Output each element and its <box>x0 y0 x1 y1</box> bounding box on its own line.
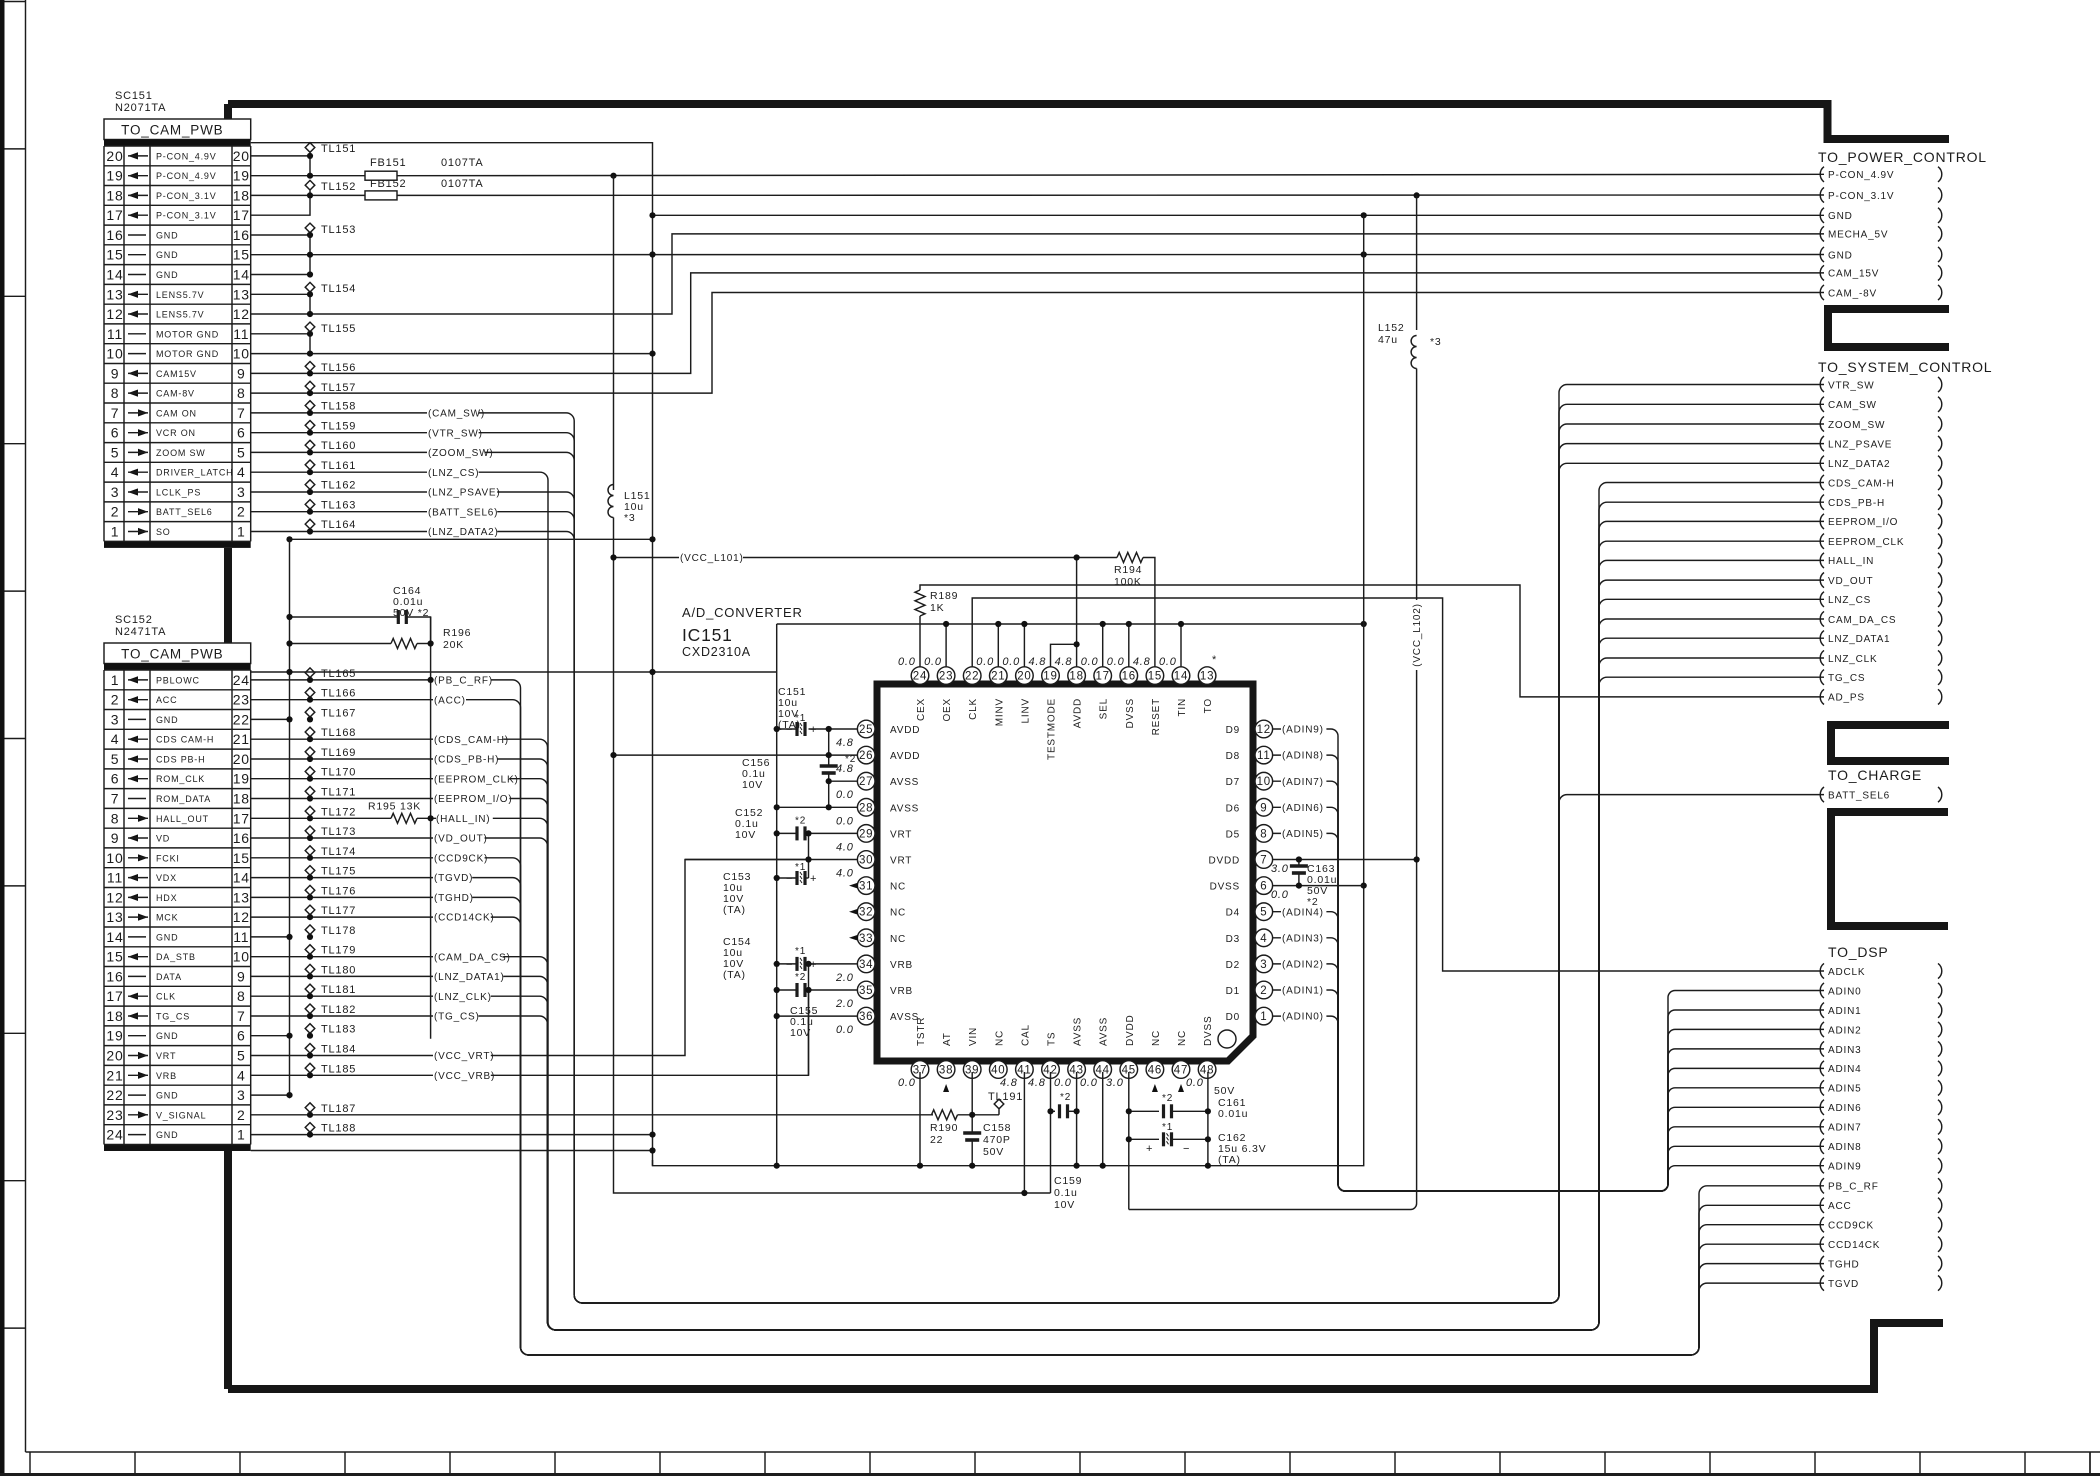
wire CLK line to ADCLK <box>972 598 1824 971</box>
svg-text:0.0: 0.0 <box>1081 656 1099 668</box>
svg-text:D2: D2 <box>1226 960 1240 971</box>
svg-text:(TA): (TA) <box>723 904 746 916</box>
svg-text:ADIN6: ADIN6 <box>1828 1103 1861 1114</box>
svg-text:5: 5 <box>237 444 246 460</box>
svg-text:TG_CS: TG_CS <box>1828 673 1865 684</box>
svg-text:9: 9 <box>111 830 120 846</box>
IC151 pin 25 AVDD (left) <box>857 720 875 738</box>
wire C163 bottom stem <box>1298 873 1300 886</box>
wire GND row3 <box>251 718 290 720</box>
svg-text:VRB: VRB <box>890 986 913 997</box>
IC151 pin 8 D5 (right) <box>1255 825 1273 843</box>
node TGHD (connector stub) <box>1820 1256 1824 1271</box>
node EEPROM_I/O (connector stub) <box>1820 514 1824 529</box>
svg-text:DA_STB: DA_STB <box>156 952 196 962</box>
inductor L151 coil <box>608 485 614 518</box>
IC151 pin 15 RESET (top) <box>1146 667 1164 685</box>
svg-text:VD: VD <box>156 834 170 844</box>
svg-text:17: 17 <box>233 810 250 826</box>
svg-text:*2: *2 <box>795 815 806 826</box>
svg-text:33: 33 <box>859 933 873 945</box>
wire VCC_L101 line <box>614 557 1077 559</box>
wire GND row22 <box>251 1094 290 1096</box>
svg-text:18: 18 <box>233 791 250 807</box>
svg-text:50V: 50V <box>983 1146 1004 1158</box>
node PB_C_RF (connector stub) <box>1820 1178 1824 1193</box>
svg-text:TGVD: TGVD <box>1828 1279 1859 1290</box>
capacitor C154 10u 10V (TA) <box>797 957 805 971</box>
svg-text:1K: 1K <box>930 602 944 614</box>
wire C153 left <box>777 877 797 879</box>
svg-text:+: + <box>810 873 817 885</box>
svg-text:(ADIN3): (ADIN3) <box>1282 933 1324 944</box>
svg-text:(LNZ_DATA1): (LNZ_DATA1) <box>434 972 505 983</box>
wire TL168 stem <box>309 737 311 739</box>
IC151 pin 7 DVDD (right) <box>1255 851 1273 869</box>
svg-text:+: + <box>1146 1143 1153 1155</box>
svg-text:R196: R196 <box>443 627 471 639</box>
svg-text:DATA: DATA <box>156 972 182 982</box>
svg-text:46: 46 <box>1148 1065 1162 1077</box>
svg-text:TL174: TL174 <box>321 846 356 858</box>
svg-text:38: 38 <box>939 1065 953 1077</box>
svg-text:23: 23 <box>106 1107 123 1123</box>
wire VTR_SW route <box>251 385 1824 1304</box>
node ADIN5 (connector stub) <box>1820 1080 1824 1095</box>
wire C164 right <box>407 617 431 644</box>
svg-text:15: 15 <box>233 247 250 263</box>
svg-text:10: 10 <box>106 346 123 362</box>
wire GND pin vertical 7 <box>1102 624 1104 667</box>
node GND (connector stub) <box>1820 247 1824 262</box>
svg-text:2: 2 <box>111 504 120 520</box>
wire LENS5.7V tie <box>309 294 311 314</box>
junction IC bottom junctions <box>917 1108 1211 1196</box>
wire TGVD route <box>251 878 1824 1355</box>
svg-text:0.0: 0.0 <box>1080 1077 1098 1089</box>
wire TL163 stem <box>309 510 311 512</box>
IC151 pin 45 DVDD (bottom) <box>1120 1061 1138 1079</box>
svg-text:6: 6 <box>1260 881 1267 893</box>
svg-text:14: 14 <box>106 929 123 945</box>
svg-text:4.0: 4.0 <box>836 868 854 880</box>
test point TL160 <box>305 440 315 450</box>
test point TL188 <box>305 1123 315 1133</box>
svg-text:TL152: TL152 <box>321 181 356 193</box>
IC151 pin 34 VRB (left) <box>857 955 875 973</box>
test point TL159 <box>305 421 315 431</box>
junction SC152 junctions <box>286 669 655 1154</box>
capacitor C153 10u 10V (TA) <box>797 871 805 885</box>
svg-text:LNZ_CS: LNZ_CS <box>1828 595 1871 606</box>
IC151 pin 46 NC (bottom) <box>1146 1061 1164 1079</box>
IC151 pin 6 DVSS (right) <box>1255 877 1273 895</box>
svg-text:C159: C159 <box>1054 1175 1082 1187</box>
svg-text:0107TA: 0107TA <box>441 178 484 190</box>
test point TL174 <box>305 846 315 856</box>
wire DVSS pin48 vertical <box>1207 1072 1209 1166</box>
svg-text:ROM_CLK: ROM_CLK <box>156 774 205 784</box>
IC151 pin 29 VRT (left) <box>857 825 875 843</box>
svg-text:11: 11 <box>233 929 249 945</box>
svg-text:13: 13 <box>106 909 123 925</box>
svg-text:TESTMODE: TESTMODE <box>1047 698 1058 760</box>
svg-text:−: − <box>786 873 793 885</box>
IC151 pin 36 AVSS (left) <box>857 1007 875 1025</box>
svg-text:*2: *2 <box>1162 1093 1173 1104</box>
node LNZ_DATA1 (connector stub) <box>1820 631 1824 646</box>
svg-text:N2471TA: N2471TA <box>115 626 166 638</box>
svg-text:12: 12 <box>106 306 123 322</box>
node CDS_CAM-H (connector stub) <box>1820 475 1824 490</box>
wire ADIN8 bus <box>1273 755 1824 1191</box>
svg-text:6: 6 <box>237 425 246 441</box>
test point TL163 <box>305 500 315 510</box>
IC151 pin 12 D9 (right) <box>1255 720 1273 738</box>
wire TL188 stem <box>309 1133 311 1135</box>
svg-text:9: 9 <box>111 365 120 381</box>
svg-text:(CCD9CK): (CCD9CK) <box>434 853 488 864</box>
wire C162 right <box>1172 1138 1208 1140</box>
svg-text:4: 4 <box>237 464 246 480</box>
test point TL177 <box>305 905 315 915</box>
svg-text:D3: D3 <box>1226 934 1240 945</box>
svg-text:D4: D4 <box>1226 908 1240 919</box>
IC151 pin 13 TO (top) <box>1198 667 1216 685</box>
wire TL185 stem <box>309 1073 311 1075</box>
wire GND pin vertical 10 <box>1180 624 1182 667</box>
svg-text:P-CON_4.9V: P-CON_4.9V <box>156 171 217 181</box>
wire TL182 stem <box>309 1014 311 1016</box>
svg-text:(VCC_L102): (VCC_L102) <box>1412 603 1423 667</box>
wire VRT pin30 line <box>685 859 857 861</box>
wire TL162 stem <box>309 490 311 492</box>
IC151 pin 48 DVSS (bottom) <box>1198 1061 1216 1079</box>
svg-text:EEPROM_I/O: EEPROM_I/O <box>1828 517 1898 528</box>
svg-text:HDX: HDX <box>156 893 177 903</box>
svg-text:RESET: RESET <box>1151 698 1162 735</box>
svg-text:FB152: FB152 <box>370 178 406 190</box>
svg-text:VRT: VRT <box>156 1051 176 1061</box>
svg-text:4: 4 <box>237 1067 246 1083</box>
IC151 pin 9 D6 (right) <box>1255 799 1273 817</box>
svg-text:18: 18 <box>1069 671 1083 683</box>
svg-text:CAM_-8V: CAM_-8V <box>1828 288 1877 299</box>
wire TESTMODE pin19 jog <box>1051 644 1077 667</box>
svg-text:2: 2 <box>1260 985 1267 997</box>
wire TL157 stem <box>309 391 311 393</box>
svg-text:4.8: 4.8 <box>1055 656 1073 668</box>
svg-text:0.1u: 0.1u <box>1054 1187 1078 1199</box>
wire GND pin15 to TO_POWER_CONTROL <box>251 254 1824 256</box>
svg-text:19: 19 <box>1043 671 1057 683</box>
junction IC left junctions <box>610 726 831 1019</box>
node CCD9CK (connector stub) <box>1820 1217 1824 1232</box>
IC151 pin 3 D2 (right) <box>1255 955 1273 973</box>
resistor R195 13K <box>391 813 417 823</box>
svg-text:CAM ON: CAM ON <box>156 408 197 418</box>
svg-text:ADIN4: ADIN4 <box>1828 1064 1861 1075</box>
node CDS_PB-H (connector stub) <box>1820 495 1824 510</box>
svg-text:9: 9 <box>237 365 246 381</box>
test point TL179 <box>305 945 315 955</box>
IC151 pin 4 D3 (right) <box>1255 929 1273 947</box>
svg-text:8: 8 <box>237 385 246 401</box>
svg-text:0.0: 0.0 <box>1054 1077 1072 1089</box>
wire TL154 stem <box>309 292 311 294</box>
svg-text:36: 36 <box>859 1011 873 1023</box>
node CCD14CK (connector stub) <box>1820 1237 1824 1252</box>
svg-text:0.0: 0.0 <box>924 656 942 668</box>
node ADIN0 (connector stub) <box>1820 983 1824 998</box>
svg-text:10: 10 <box>233 346 250 362</box>
wire DVDD pin45 vertical <box>1128 1072 1130 1210</box>
svg-text:DVSS: DVSS <box>1203 1016 1214 1046</box>
svg-text:SC151: SC151 <box>115 90 153 102</box>
wire VCC_VRT route <box>251 860 809 1056</box>
svg-text:(ADIN6): (ADIN6) <box>1282 803 1324 814</box>
IC151 pin 30 VRT (left) <box>857 851 875 869</box>
svg-text:LNZ_DATA2: LNZ_DATA2 <box>1828 459 1890 470</box>
svg-text:LNZ_PSAVE: LNZ_PSAVE <box>1828 439 1892 450</box>
svg-text:9: 9 <box>237 968 246 984</box>
junction C164/R196 junctions <box>286 614 433 647</box>
IC151 pin 17 SEL (top) <box>1094 667 1112 685</box>
wire TL160 stem <box>309 450 311 452</box>
svg-text:4.8: 4.8 <box>1133 656 1151 668</box>
svg-text:1: 1 <box>111 672 120 688</box>
svg-text:LINV: LINV <box>1020 698 1031 723</box>
svg-text:TO_CAM_PWB: TO_CAM_PWB <box>121 647 223 662</box>
wire TL173 stem <box>309 836 311 838</box>
op-amp/IC U IC151 CXD2310A A/D converter body <box>877 684 1253 1061</box>
IC151 pin 40 NC (bottom) <box>990 1061 1008 1079</box>
svg-text:D1: D1 <box>1226 986 1240 997</box>
wire CEX line to AD_PS <box>920 585 1824 697</box>
svg-text:TL171: TL171 <box>321 787 356 799</box>
IC151 pin 35 VRB (left) <box>857 981 875 999</box>
svg-text:18: 18 <box>106 1008 123 1024</box>
svg-text:VRB: VRB <box>156 1071 177 1081</box>
svg-text:50V *2: 50V *2 <box>393 607 429 619</box>
capacitor C151 10u 10V (TA) <box>797 722 805 736</box>
wire TL155 stem <box>309 332 311 334</box>
wire GND pins 16-14 tie <box>309 235 311 275</box>
IC151 pin 5 D4 (right) <box>1255 903 1273 921</box>
svg-text:22: 22 <box>233 711 250 727</box>
svg-text:TL166: TL166 <box>321 688 356 700</box>
svg-text:TL172: TL172 <box>321 806 356 818</box>
wire MOTOR GND pin11 <box>251 333 310 335</box>
svg-text:0.01u: 0.01u <box>1218 1108 1248 1120</box>
schematic frame border <box>228 104 1949 1389</box>
node MECHA_5V (connector stub) <box>1820 226 1824 241</box>
node LNZ_PSAVE (connector stub) <box>1820 436 1824 451</box>
svg-text:16: 16 <box>106 968 123 984</box>
svg-text:TL177: TL177 <box>321 905 356 917</box>
wire TL177 stem <box>309 915 311 917</box>
svg-text:14: 14 <box>1174 671 1188 683</box>
svg-text:(ADIN7): (ADIN7) <box>1282 777 1324 788</box>
wire TL161 stem <box>309 470 311 472</box>
svg-text:0.0: 0.0 <box>836 815 854 827</box>
svg-text:R189: R189 <box>930 590 958 602</box>
svg-text:AVDD: AVDD <box>890 751 920 762</box>
wire TL175 stem <box>309 876 311 878</box>
test point TL185 <box>305 1063 315 1073</box>
svg-text:TO_SYSTEM_CONTROL: TO_SYSTEM_CONTROL <box>1818 359 1992 375</box>
IC151 pin 16 DVSS (top) <box>1120 667 1138 685</box>
wire TL164 stem <box>309 529 311 531</box>
svg-text:18: 18 <box>106 187 123 203</box>
svg-text:21: 21 <box>991 671 1005 683</box>
wire L151 top <box>613 176 615 490</box>
IC151 pin 32 NC (left) <box>857 903 875 921</box>
wire CCD14CK route <box>251 917 1824 1355</box>
svg-text:PB_C_RF: PB_C_RF <box>1828 1182 1879 1193</box>
svg-text:(LNZ_DATA2): (LNZ_DATA2) <box>428 527 499 538</box>
svg-text:(TA): (TA) <box>723 969 746 981</box>
IC151 pin-1 indicator circle <box>1218 1030 1236 1048</box>
svg-text:TL180: TL180 <box>321 964 356 976</box>
node ADIN6 (connector stub) <box>1820 1100 1824 1115</box>
svg-text:16: 16 <box>1122 671 1136 683</box>
IC151 pin 11 D8 (right) <box>1255 746 1273 764</box>
test point TL175 <box>305 866 315 876</box>
svg-text:VRT: VRT <box>890 856 912 867</box>
svg-text:CEX: CEX <box>916 698 927 721</box>
svg-text:TL159: TL159 <box>321 420 356 432</box>
wire C153 right <box>805 877 808 879</box>
wire GND pin14 <box>251 274 310 276</box>
svg-text:2: 2 <box>237 1107 246 1123</box>
wire C159 right stem <box>1068 1110 1077 1112</box>
IC151 pin 22 CLK (top) <box>963 667 981 685</box>
wire TL167 stem <box>309 717 311 719</box>
node ADIN1 (connector stub) <box>1820 1003 1824 1018</box>
wire TL184 stem <box>309 1054 311 1056</box>
svg-text:LCLK_PS: LCLK_PS <box>156 488 201 498</box>
svg-text:MCK: MCK <box>156 913 178 923</box>
wire AVSS pin28 line <box>777 806 858 808</box>
svg-text:TGHD: TGHD <box>1828 1259 1860 1270</box>
svg-text:CDS CAM-H: CDS CAM-H <box>156 735 214 745</box>
wire L152 to DVDD net (VCC_L102) <box>1129 369 1417 1210</box>
svg-text:15: 15 <box>1148 671 1162 683</box>
capacitor C158 470P 50V <box>963 1133 981 1140</box>
svg-text:0.0: 0.0 <box>1186 1077 1204 1089</box>
svg-text:SC152: SC152 <box>115 614 153 626</box>
svg-text:(ADIN1): (ADIN1) <box>1282 986 1324 997</box>
node AD_PS (connector stub) <box>1820 689 1824 704</box>
test point TL187 <box>305 1103 315 1113</box>
svg-text:VRB: VRB <box>890 960 913 971</box>
svg-text:24: 24 <box>106 1127 123 1143</box>
svg-text:19: 19 <box>233 168 250 184</box>
svg-text:(TGVD): (TGVD) <box>434 873 473 884</box>
wire C156 bottom stem <box>828 773 830 807</box>
wire TSTR pin37 vertical <box>919 1072 921 1166</box>
svg-text:22: 22 <box>106 1087 123 1103</box>
svg-text:0.0: 0.0 <box>976 656 994 668</box>
wire VRB tie vertical <box>808 964 810 1075</box>
wire C155 left <box>777 989 797 991</box>
test point TL167 <box>305 707 315 717</box>
svg-text:TL183: TL183 <box>321 1024 356 1036</box>
wire PB_C_RF filter tap <box>430 617 432 1039</box>
capacitor C159 0.1u 10V <box>1060 1104 1068 1118</box>
svg-text:ADIN9: ADIN9 <box>1828 1162 1861 1173</box>
junction IC top junctions <box>943 554 1367 647</box>
capacitor C161 0.01u 50V <box>1164 1104 1172 1118</box>
svg-text:4: 4 <box>111 731 120 747</box>
wire VRB pin34 line <box>807 963 858 965</box>
svg-text:LNZ_CLK: LNZ_CLK <box>1828 654 1878 665</box>
svg-text:(VTR_SW): (VTR_SW) <box>428 428 483 439</box>
svg-text:(PB_C_RF): (PB_C_RF) <box>434 676 493 687</box>
test point TL153 <box>305 223 315 233</box>
test point TL184 <box>305 1044 315 1054</box>
test point TL171 <box>305 787 315 797</box>
capacitor C152 0.1u 10V <box>797 826 805 840</box>
svg-text:TL162: TL162 <box>321 480 356 492</box>
svg-text:VDX: VDX <box>156 873 177 883</box>
svg-text:TL161: TL161 <box>321 460 356 472</box>
wire AVSS rail vertical <box>776 624 778 1166</box>
svg-text:(ADIN2): (ADIN2) <box>1282 960 1324 971</box>
ferrite bead FB151 0107TA <box>365 171 397 180</box>
svg-text:PBLOWC: PBLOWC <box>156 675 200 685</box>
svg-text:EEPROM_CLK: EEPROM_CLK <box>1828 537 1904 548</box>
svg-text:GND: GND <box>1828 250 1853 261</box>
wire GND branch to SC152 area <box>290 538 653 540</box>
svg-text:VCR ON: VCR ON <box>156 428 196 438</box>
svg-text:18: 18 <box>233 187 250 203</box>
test point TL162 <box>305 480 315 490</box>
svg-text:(ACC): (ACC) <box>434 695 466 706</box>
svg-text:0.0: 0.0 <box>836 1024 854 1036</box>
wire VCC_L101 feed / CAL supply <box>614 518 1051 1194</box>
wire C152 left <box>777 832 797 834</box>
svg-text:OEX: OEX <box>942 698 953 722</box>
wire TL169 stem <box>309 757 311 759</box>
IC151 pin 19 TESTMODE (top) <box>1042 667 1060 685</box>
svg-text:(CCD14CK): (CCD14CK) <box>434 913 495 924</box>
svg-text:ZOOM_SW: ZOOM_SW <box>1828 420 1885 431</box>
wire VRT tie vertical <box>808 833 810 878</box>
svg-text:3: 3 <box>111 484 120 500</box>
svg-text:AVSS: AVSS <box>1073 1017 1084 1046</box>
wire TL171 stem <box>309 797 311 799</box>
svg-text:48: 48 <box>1200 1065 1214 1077</box>
svg-text:(ADIN5): (ADIN5) <box>1282 829 1324 840</box>
svg-text:CDS_CAM-H: CDS_CAM-H <box>1828 478 1895 489</box>
wire GND pin vertical 4 <box>1023 624 1025 667</box>
ferrite bead FB152 0107TA <box>365 191 397 200</box>
svg-text:25: 25 <box>859 724 873 736</box>
node TG_CS (connector stub) <box>1820 670 1824 685</box>
IC151 pin 27 AVSS (left) <box>857 772 875 790</box>
svg-text:21: 21 <box>106 1067 123 1083</box>
wire GND bottom rail <box>653 215 1364 1165</box>
wire GND pin vertical 1 <box>945 624 947 667</box>
wire ADIN6 bus <box>1273 807 1824 1191</box>
svg-text:(ADIN9): (ADIN9) <box>1282 725 1324 736</box>
resistor R196 20K <box>391 639 417 649</box>
svg-text:L152: L152 <box>1378 322 1405 334</box>
wire TL176 stem <box>309 895 311 897</box>
svg-text:P-CON_4.9V: P-CON_4.9V <box>1828 170 1894 181</box>
